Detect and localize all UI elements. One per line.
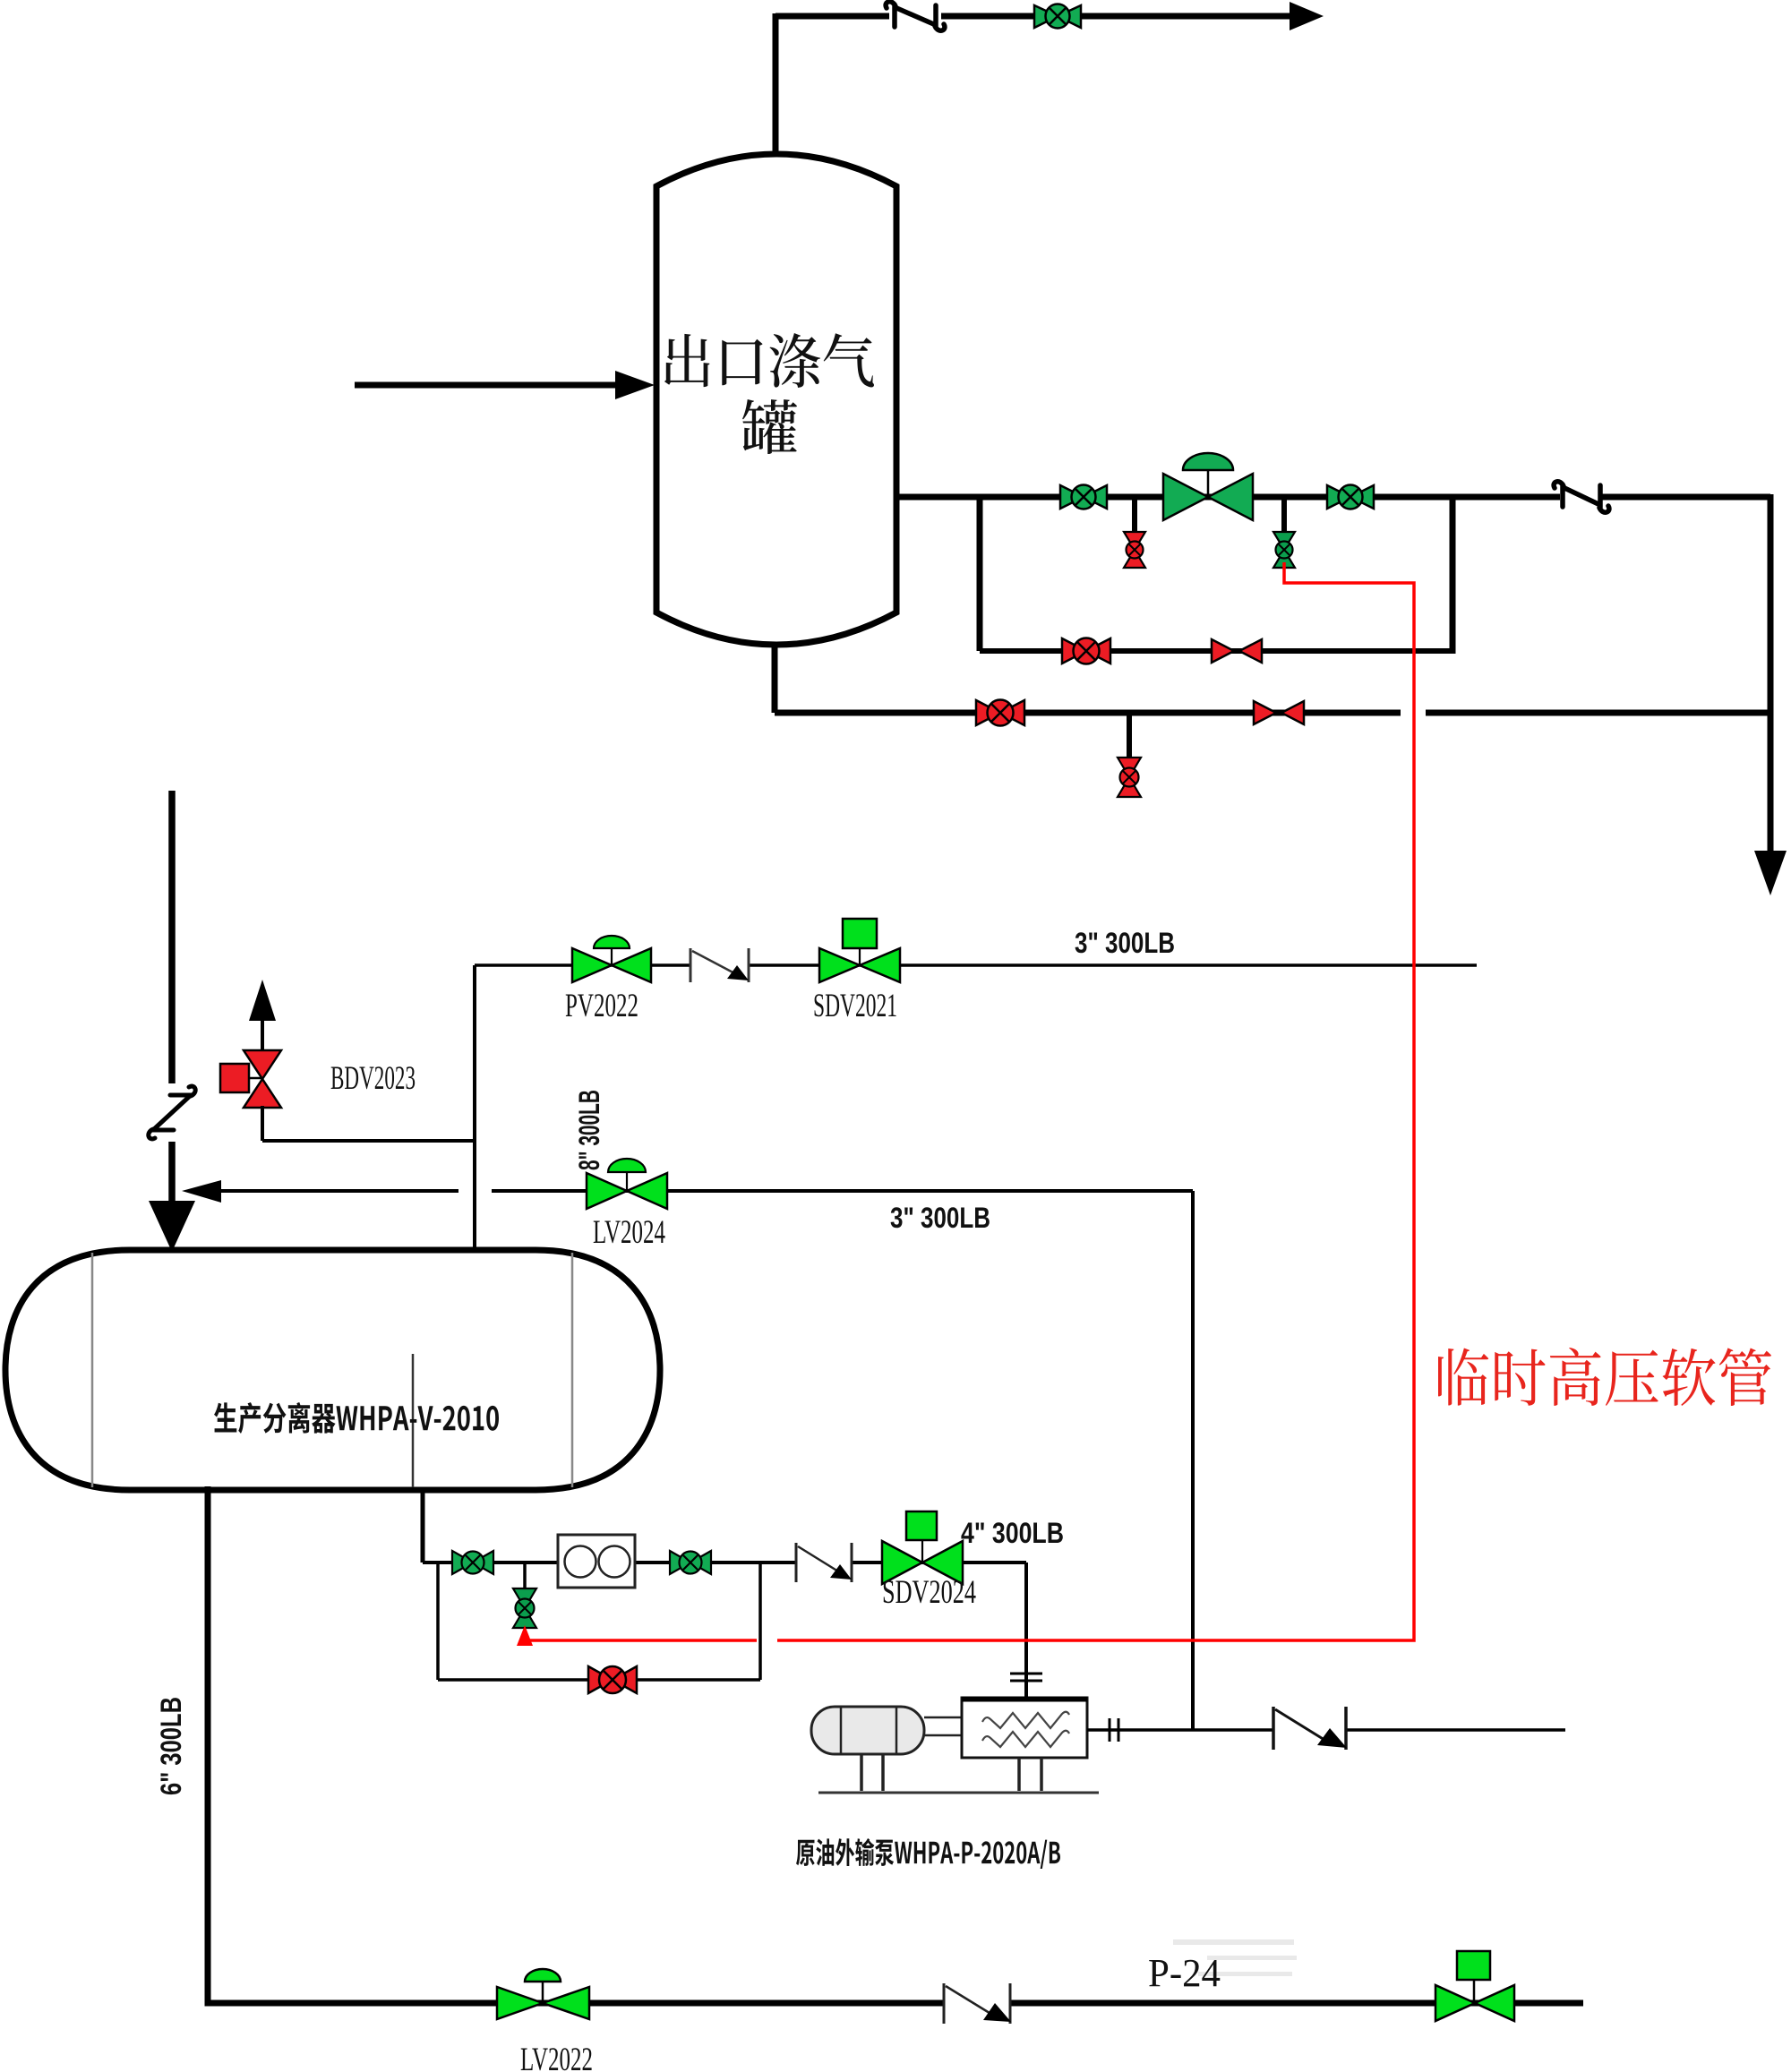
- line break symbol on main line: [1554, 482, 1609, 512]
- arrow: red hose arrow up into meter branch: [517, 1625, 533, 1646]
- pump casing legs: [1019, 1758, 1041, 1791]
- line break symbol on riser x=192: [149, 1086, 195, 1139]
- valve: LV2022 level control valve with diaphragm on export line: [497, 1969, 589, 2019]
- wire: pump discharge line y=1932: [1087, 1728, 1565, 1732]
- arrow: inlet arrow into scrubber: [615, 371, 655, 399]
- pump label 原油外输泵WHPA-P-2020A/B: [796, 1838, 1060, 1869]
- wire: instrument stub x=1434: [1281, 497, 1287, 533]
- pump shaft coupling: [924, 1717, 962, 1735]
- valve: green ball valve downstream of control valve: [1327, 485, 1374, 509]
- wire: meter bypass line y=1876: [438, 1678, 760, 1682]
- valve: small green globe valve on stub x=1434: [1273, 532, 1295, 568]
- valve: BDV2023 blowdown valve with solenoid square: [220, 1050, 281, 1108]
- svg-text:LV2022: LV2022: [520, 2042, 593, 2072]
- arrow: recycle line arrow into riser: [182, 1180, 221, 1203]
- arrow: top header flow arrow: [1290, 2, 1324, 30]
- svg-text:PV2022: PV2022: [565, 988, 638, 1024]
- valve: SDV2024 shutdown valve with solenoid square: [882, 1511, 963, 1584]
- vessel: outlet scrubber tank 出口涤气罐: [656, 154, 896, 645]
- vessel: production separator WHPA-V-2010: [5, 1250, 660, 1490]
- wire: HP flare inlet thick riser x=192: [168, 791, 176, 1204]
- line break symbol on top header: [886, 2, 945, 30]
- wire: bypass line y=727: [980, 648, 1453, 654]
- svg-text:SDV2021: SDV2021: [813, 988, 897, 1024]
- wire: meter bypass left drop x=489: [436, 1563, 440, 1680]
- check valve on pump suction: [796, 1543, 852, 1582]
- svg-text:3" 300LB: 3" 300LB: [890, 1202, 990, 1234]
- valve: red butterfly valve on bypass: [1212, 639, 1262, 663]
- check valve on export line: [944, 1983, 1011, 2024]
- wire: BDV2023 outlet down and over to gas riser: [262, 1106, 475, 1141]
- valve: red ball valve on bottom outlet: [976, 700, 1024, 726]
- valve: small green globe valve on stub x=586: [513, 1588, 536, 1628]
- valve: green ball valve upstream of PV2021: [1060, 485, 1107, 509]
- red temporary hose: stub under green globe x=1434 down right and across: [528, 562, 1414, 1640]
- wire: scrubber bottom outlet line y=796: [775, 710, 1770, 716]
- valve: LV2024 level control valve with diaphragm: [587, 1159, 667, 1209]
- wire: scrubber gas outlet main line y=555: [894, 494, 1770, 501]
- vessel label line2 罐: [742, 399, 797, 454]
- arrow: down arrow at right header end: [1754, 851, 1787, 895]
- wire: scrubber inlet line: [355, 382, 618, 389]
- separator internal weir: [412, 1354, 415, 1487]
- wire: riser from scrubber top x=866: [773, 13, 779, 158]
- valve: small red globe valve on stub x=1267: [1124, 532, 1145, 568]
- check valve on PV2022 line: [690, 948, 749, 982]
- union symbol on pump discharge: [1110, 1718, 1118, 1742]
- valve: pressure control valve with diaphragm actuator on main line: [1163, 453, 1253, 520]
- separator head seam line left: [91, 1253, 94, 1487]
- svg-text:8" 300LB: 8" 300LB: [573, 1090, 605, 1170]
- valve: red butterfly valve on bottom outlet: [1254, 701, 1304, 724]
- valve: red ball valve on bypass: [1062, 638, 1110, 664]
- photocopy smudges near P-24: [1173, 1939, 1297, 1976]
- svg-text:6" 300LB: 6" 300LB: [155, 1697, 187, 1795]
- arrow: BDV2023 vent arrow up: [249, 980, 276, 1021]
- separator label 生产分离器WHPA-V-2010: [214, 1402, 499, 1434]
- pump: motor capsule WHPA-P-2020A/B: [811, 1707, 924, 1754]
- check valve on pump discharge: [1273, 1707, 1347, 1750]
- wire: top gas outlet header y=18: [776, 13, 1290, 158]
- wire: right header drop to flare x=1977: [1768, 494, 1774, 852]
- valve: green ball valve on top header: [1034, 4, 1081, 29]
- valve: red ball valve on meter bypass: [588, 1666, 637, 1693]
- wire: LV2024 line drop to pump discharge x=1332: [1191, 1191, 1195, 1730]
- pulsation symbol two bars on pump inlet: [1010, 1674, 1042, 1681]
- wire: bypass left riser x=1094: [977, 494, 983, 651]
- wire: PV2022 gas line y=1078: [475, 963, 1477, 967]
- pump motor legs: [861, 1754, 883, 1791]
- wire: meter bypass right drop x=849: [758, 1563, 762, 1680]
- wire: metering run y=1745: [423, 1561, 1026, 1564]
- arrow: down arrow into separator inlet: [149, 1201, 195, 1252]
- svg-text:3" 300LB: 3" 300LB: [1075, 927, 1175, 959]
- wire: bypass right riser x=1622: [1450, 494, 1456, 654]
- valve: green ball valve upstream of meter: [452, 1551, 493, 1574]
- red note 临时高压软管 temporary high pressure hose: [1438, 1348, 1771, 1406]
- valve: SDV on export pipeline with solenoid square: [1435, 1951, 1514, 2021]
- wire: separator gas riser x=530: [473, 965, 476, 1247]
- svg-text:4" 300LB: 4" 300LB: [961, 1517, 1064, 1549]
- pump casing box with coils: [962, 1698, 1087, 1758]
- valve: green ball valve downstream of meter: [670, 1551, 711, 1574]
- separator head seam line right: [571, 1253, 574, 1487]
- wire: BDV2023 vent stub: [261, 1017, 264, 1053]
- svg-text:BDV2023: BDV2023: [330, 1060, 416, 1097]
- svg-text:SDV2024: SDV2024: [882, 1574, 976, 1611]
- wire: separator outlet to metering x=472: [421, 1488, 425, 1563]
- wire: drain stub x=1261: [1127, 713, 1132, 759]
- wire: drain stub x=1267: [1132, 497, 1137, 533]
- valve: SDV2021 shutdown valve with solenoid square: [819, 919, 900, 982]
- svg-text:P-24: P-24: [1148, 1951, 1221, 1995]
- wire: scrubber bottom drop leg x=865: [772, 642, 778, 713]
- valve: small red globe valve on stub x=1261: [1118, 758, 1141, 797]
- wire: separator oil outlet 6in riser x=232 and export bottom line y=2237: [208, 1486, 1583, 2003]
- wire: instrument stub x=586: [523, 1563, 527, 1590]
- pump baseplate: [818, 1792, 1099, 1794]
- flow meter with two rotors: [558, 1535, 635, 1588]
- svg-text:LV2024: LV2024: [593, 1214, 665, 1251]
- vessel V-2030 label line1 出口涤气: [664, 333, 874, 388]
- valve: PV2022 control valve with diaphragm: [572, 936, 651, 982]
- wire: LV2024 level control line y=1330: [219, 1189, 1193, 1193]
- wire: SDV2024 outlet drop x=1146: [1024, 1563, 1028, 1698]
